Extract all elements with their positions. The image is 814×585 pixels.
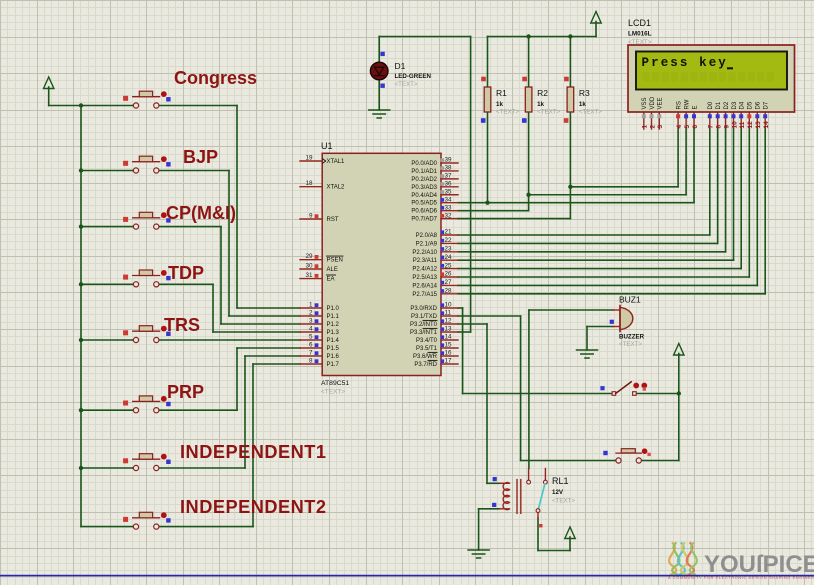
svg-text:24: 24 [445, 254, 453, 261]
svg-text:P1.0: P1.0 [327, 306, 340, 312]
svg-text:LM016L: LM016L [628, 31, 652, 38]
svg-text:7: 7 [309, 350, 313, 357]
svg-text:P1.7: P1.7 [327, 362, 340, 368]
svg-text:2: 2 [649, 125, 656, 129]
svg-text:P3.7/RD: P3.7/RD [414, 362, 437, 368]
svg-text:7: 7 [708, 125, 715, 129]
svg-text:12: 12 [747, 121, 754, 129]
svg-text:Congress: Congress [174, 68, 257, 88]
svg-text:27: 27 [445, 279, 453, 286]
svg-text:1: 1 [642, 125, 649, 129]
svg-text:29: 29 [305, 253, 313, 260]
svg-text:P3.3/INT1: P3.3/INT1 [410, 330, 438, 336]
svg-text:RL1: RL1 [552, 476, 569, 486]
svg-text:5: 5 [309, 334, 313, 341]
svg-text:D1: D1 [716, 101, 722, 109]
svg-text:34: 34 [445, 196, 453, 203]
svg-text:CP(M&I): CP(M&I) [166, 203, 236, 223]
svg-text:BJP: BJP [183, 147, 218, 167]
svg-text:14: 14 [445, 334, 453, 341]
svg-text:P2.6/A14: P2.6/A14 [412, 283, 437, 289]
svg-text:10: 10 [731, 121, 738, 129]
svg-text:LED-GREEN: LED-GREEN [395, 73, 432, 80]
svg-text:18: 18 [305, 180, 313, 187]
svg-text:<TEXT>: <TEXT> [496, 109, 519, 116]
svg-text:28: 28 [445, 288, 453, 295]
svg-text:U1: U1 [321, 141, 333, 151]
svg-text:D1: D1 [395, 61, 406, 71]
svg-text:1k: 1k [579, 101, 586, 108]
svg-text:D4: D4 [740, 101, 746, 109]
svg-text:31: 31 [305, 272, 313, 279]
svg-text:19: 19 [305, 155, 313, 162]
svg-text:9: 9 [723, 125, 730, 129]
svg-text:RS: RS [677, 101, 683, 109]
svg-text:YOUſPICE: YOUſPICE [704, 551, 814, 578]
svg-text:P0.6/AD6: P0.6/AD6 [411, 209, 437, 215]
svg-text:Press key: Press key [642, 56, 728, 70]
svg-text:23: 23 [445, 246, 453, 253]
svg-text:4: 4 [676, 125, 683, 129]
svg-text:P3.2/INT0: P3.2/INT0 [410, 322, 438, 328]
svg-text:P0.0/AD0: P0.0/AD0 [411, 161, 437, 167]
svg-text:2: 2 [309, 310, 313, 317]
svg-text:39: 39 [445, 157, 453, 164]
svg-text:10: 10 [445, 302, 453, 309]
svg-text:36: 36 [445, 181, 453, 188]
svg-text:12: 12 [445, 318, 453, 325]
svg-text:LCD1: LCD1 [628, 18, 651, 28]
svg-text:P1.1: P1.1 [327, 314, 340, 320]
svg-text:P1.2: P1.2 [327, 322, 340, 328]
svg-text:VSS: VSS [642, 97, 648, 109]
svg-text:<TEXT>: <TEXT> [395, 81, 418, 88]
svg-text:4: 4 [309, 326, 313, 333]
svg-text:P2.5/A13: P2.5/A13 [412, 275, 437, 281]
svg-text:VDD: VDD [650, 96, 656, 109]
svg-text:8: 8 [309, 358, 313, 365]
svg-text:3: 3 [309, 318, 313, 325]
svg-text:P2.7/A15: P2.7/A15 [412, 292, 437, 298]
svg-text:<TEXT>: <TEXT> [619, 341, 642, 348]
svg-text:R3: R3 [579, 88, 590, 98]
svg-text:VEE: VEE [658, 97, 664, 109]
svg-text:6: 6 [309, 342, 313, 349]
svg-text:D2: D2 [724, 101, 730, 109]
svg-text:13: 13 [445, 326, 453, 333]
svg-text:9: 9 [309, 213, 313, 220]
svg-text:11: 11 [739, 121, 746, 128]
svg-text:1k: 1k [537, 101, 544, 108]
svg-text:5: 5 [684, 125, 691, 129]
svg-text:INDEPENDENT2: INDEPENDENT2 [180, 497, 326, 517]
svg-text:P2.2/A10: P2.2/A10 [412, 250, 437, 256]
svg-text:P1.4: P1.4 [327, 338, 340, 344]
svg-text:1: 1 [309, 302, 313, 309]
svg-text:3: 3 [657, 125, 664, 129]
svg-text:14: 14 [763, 121, 770, 129]
svg-text:D7: D7 [764, 101, 770, 109]
svg-text:R2: R2 [537, 88, 548, 98]
svg-text:P0.2/AD2: P0.2/AD2 [411, 177, 437, 183]
svg-text:R1: R1 [496, 88, 507, 98]
svg-text:22: 22 [445, 237, 453, 244]
svg-text:P2.1/A9: P2.1/A9 [416, 241, 438, 247]
svg-text:BUZ1: BUZ1 [619, 295, 641, 305]
svg-text:<TEXT>: <TEXT> [552, 498, 575, 505]
svg-text:33: 33 [445, 204, 453, 211]
svg-text:TRS: TRS [164, 315, 200, 335]
svg-text:P3.1/TXD: P3.1/TXD [411, 314, 438, 320]
svg-text:PRP: PRP [167, 382, 204, 402]
svg-text:XTAL2: XTAL2 [327, 185, 346, 191]
svg-text:INDEPENDENT1: INDEPENDENT1 [180, 442, 326, 462]
svg-text:37: 37 [445, 173, 453, 180]
svg-text:8: 8 [716, 125, 723, 129]
svg-text:P3.5/T1: P3.5/T1 [416, 346, 438, 352]
svg-text:P0.5/AD5: P0.5/AD5 [411, 201, 437, 207]
svg-text:11: 11 [445, 310, 452, 317]
svg-text:35: 35 [445, 188, 453, 195]
svg-text:P3.0/RXD: P3.0/RXD [410, 306, 437, 312]
svg-text:6: 6 [692, 125, 699, 129]
svg-text:D6: D6 [756, 101, 762, 109]
svg-text:P2.0/A8: P2.0/A8 [416, 233, 438, 239]
svg-text:16: 16 [445, 350, 453, 357]
svg-text:<TEXT>: <TEXT> [537, 109, 560, 116]
svg-text:P1.6: P1.6 [327, 354, 340, 360]
svg-text:RST: RST [327, 217, 339, 223]
svg-text:ALE: ALE [327, 267, 338, 273]
svg-text:<TEXT>: <TEXT> [321, 389, 345, 396]
svg-text:RW: RW [685, 99, 691, 109]
svg-text:D5: D5 [748, 101, 754, 109]
svg-text:30: 30 [305, 263, 313, 270]
svg-text:XTAL1: XTAL1 [327, 159, 346, 165]
svg-text:13: 13 [755, 121, 762, 129]
svg-text:PSEN: PSEN [327, 258, 343, 264]
svg-text:1k: 1k [496, 101, 503, 108]
svg-text:<TEXT>: <TEXT> [579, 109, 602, 116]
svg-text:32: 32 [445, 212, 453, 219]
svg-text:P0.1/AD1: P0.1/AD1 [411, 169, 437, 175]
svg-text:26: 26 [445, 271, 453, 278]
svg-text:P0.7/AD7: P0.7/AD7 [411, 217, 437, 223]
svg-text:P0.3/AD3: P0.3/AD3 [411, 185, 437, 191]
svg-text:12V: 12V [552, 489, 564, 496]
svg-text:EA: EA [327, 277, 335, 283]
svg-text:D3: D3 [732, 101, 738, 109]
svg-text:P2.3/A11: P2.3/A11 [413, 258, 438, 264]
svg-text:BUZZER: BUZZER [619, 334, 645, 341]
svg-text:P3.4/T0: P3.4/T0 [416, 338, 438, 344]
svg-text:38: 38 [445, 165, 453, 172]
svg-text:AT89C51: AT89C51 [321, 380, 349, 387]
svg-text:P1.5: P1.5 [327, 346, 340, 352]
svg-text:E: E [692, 105, 698, 109]
svg-text:TDP: TDP [168, 263, 204, 283]
svg-text:17: 17 [445, 358, 453, 365]
svg-text:P1.3: P1.3 [327, 330, 340, 336]
svg-text:D0: D0 [708, 101, 714, 109]
svg-text:15: 15 [445, 342, 453, 349]
svg-text:P0.4/AD4: P0.4/AD4 [411, 193, 437, 199]
svg-text:P2.4/A12: P2.4/A12 [412, 267, 437, 273]
svg-text:25: 25 [445, 262, 453, 269]
svg-text:P3.6/WR: P3.6/WR [413, 354, 438, 360]
svg-text:21: 21 [445, 229, 453, 236]
